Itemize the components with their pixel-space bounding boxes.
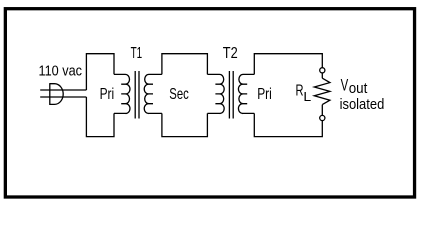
resistor RL <box>314 78 330 104</box>
border frame <box>5 9 414 197</box>
core T2 <box>229 71 233 119</box>
wire bottom prong <box>40 96 86 98</box>
svg-text:T1: T1 <box>131 45 143 62</box>
svg-text:R: R <box>296 83 304 100</box>
svg-text:isolated: isolated <box>340 96 385 113</box>
svg-text:T2: T2 <box>223 45 238 62</box>
winding T2 left <box>207 74 224 113</box>
wire primary loop T1 <box>86 54 114 137</box>
svg-text:110 vac: 110 vac <box>39 64 83 80</box>
svg-text:Pri: Pri <box>257 86 272 103</box>
terminal node bottom <box>320 115 325 120</box>
winding T2 right <box>238 74 254 113</box>
wire terminal to resistor <box>321 73 323 116</box>
svg-text:out: out <box>349 80 368 97</box>
winding T1 primary <box>114 74 130 113</box>
svg-text:V: V <box>341 76 349 94</box>
wire secondary loop (Sec box) <box>162 54 208 137</box>
terminal node top <box>320 68 325 73</box>
svg-text:L: L <box>303 89 311 104</box>
wire output loop <box>254 54 322 137</box>
ac plug P1 <box>50 83 63 105</box>
svg-text:Pri: Pri <box>100 86 115 103</box>
core T1 <box>135 71 139 119</box>
svg-text:Sec: Sec <box>169 86 189 103</box>
winding T1 secondary <box>144 74 162 113</box>
wire top prong <box>40 89 86 91</box>
